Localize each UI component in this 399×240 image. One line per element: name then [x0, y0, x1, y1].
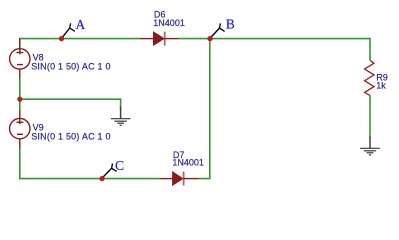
svg-text:B: B	[226, 16, 235, 31]
value V9 SIN(0 1 50) AC 1 0	[31, 132, 111, 142]
ground middle	[111, 107, 131, 126]
node B probe	[207, 23, 224, 41]
label V8	[33, 53, 44, 63]
svg-text:1N4001: 1N4001	[153, 18, 185, 28]
diode D6	[140, 32, 178, 46]
wire top rail right segment	[178, 39, 370, 61]
value D6 1N4001	[153, 18, 185, 28]
value D7 1N4001	[172, 157, 204, 167]
value V8 SIN(0 1 50) AC 1 0	[31, 62, 111, 72]
wire resistor bottom to ground	[369, 95, 371, 138]
label V9	[33, 123, 44, 133]
svg-text:SIN(0 1 50) AC 1 0: SIN(0 1 50) AC 1 0	[31, 62, 111, 72]
ground right under R9	[360, 137, 380, 155]
svg-text:1k: 1k	[376, 81, 386, 91]
wire top rail left segment	[20, 39, 140, 49]
svg-text:SIN(0 1 50) AC 1 0: SIN(0 1 50) AC 1 0	[31, 132, 111, 142]
node C label	[115, 158, 124, 173]
node A label	[76, 17, 86, 32]
label D6	[154, 9, 166, 19]
diode D7	[160, 172, 199, 186]
resistor R9	[365, 60, 374, 95]
node A probe	[59, 23, 75, 41]
junction V8/V9 mid rail	[17, 97, 22, 102]
voltage source V8	[10, 39, 30, 79]
voltage source V9	[10, 110, 30, 149]
node B label	[226, 16, 235, 31]
label D7	[173, 150, 185, 160]
value R9 1k	[376, 81, 386, 91]
wire mid rail to ground	[20, 99, 121, 108]
wire D7 cathode to node B vertical	[199, 39, 210, 179]
wire V8 bottom to junction	[19, 78, 21, 99]
node C probe	[99, 164, 116, 182]
svg-text:1N4001: 1N4001	[172, 157, 204, 167]
svg-text:C: C	[115, 158, 124, 173]
wire junction to V9 top	[19, 99, 21, 110]
label R9	[376, 73, 388, 83]
wire V9 bottom to bottom rail	[20, 148, 160, 178]
svg-text:A: A	[76, 17, 86, 32]
